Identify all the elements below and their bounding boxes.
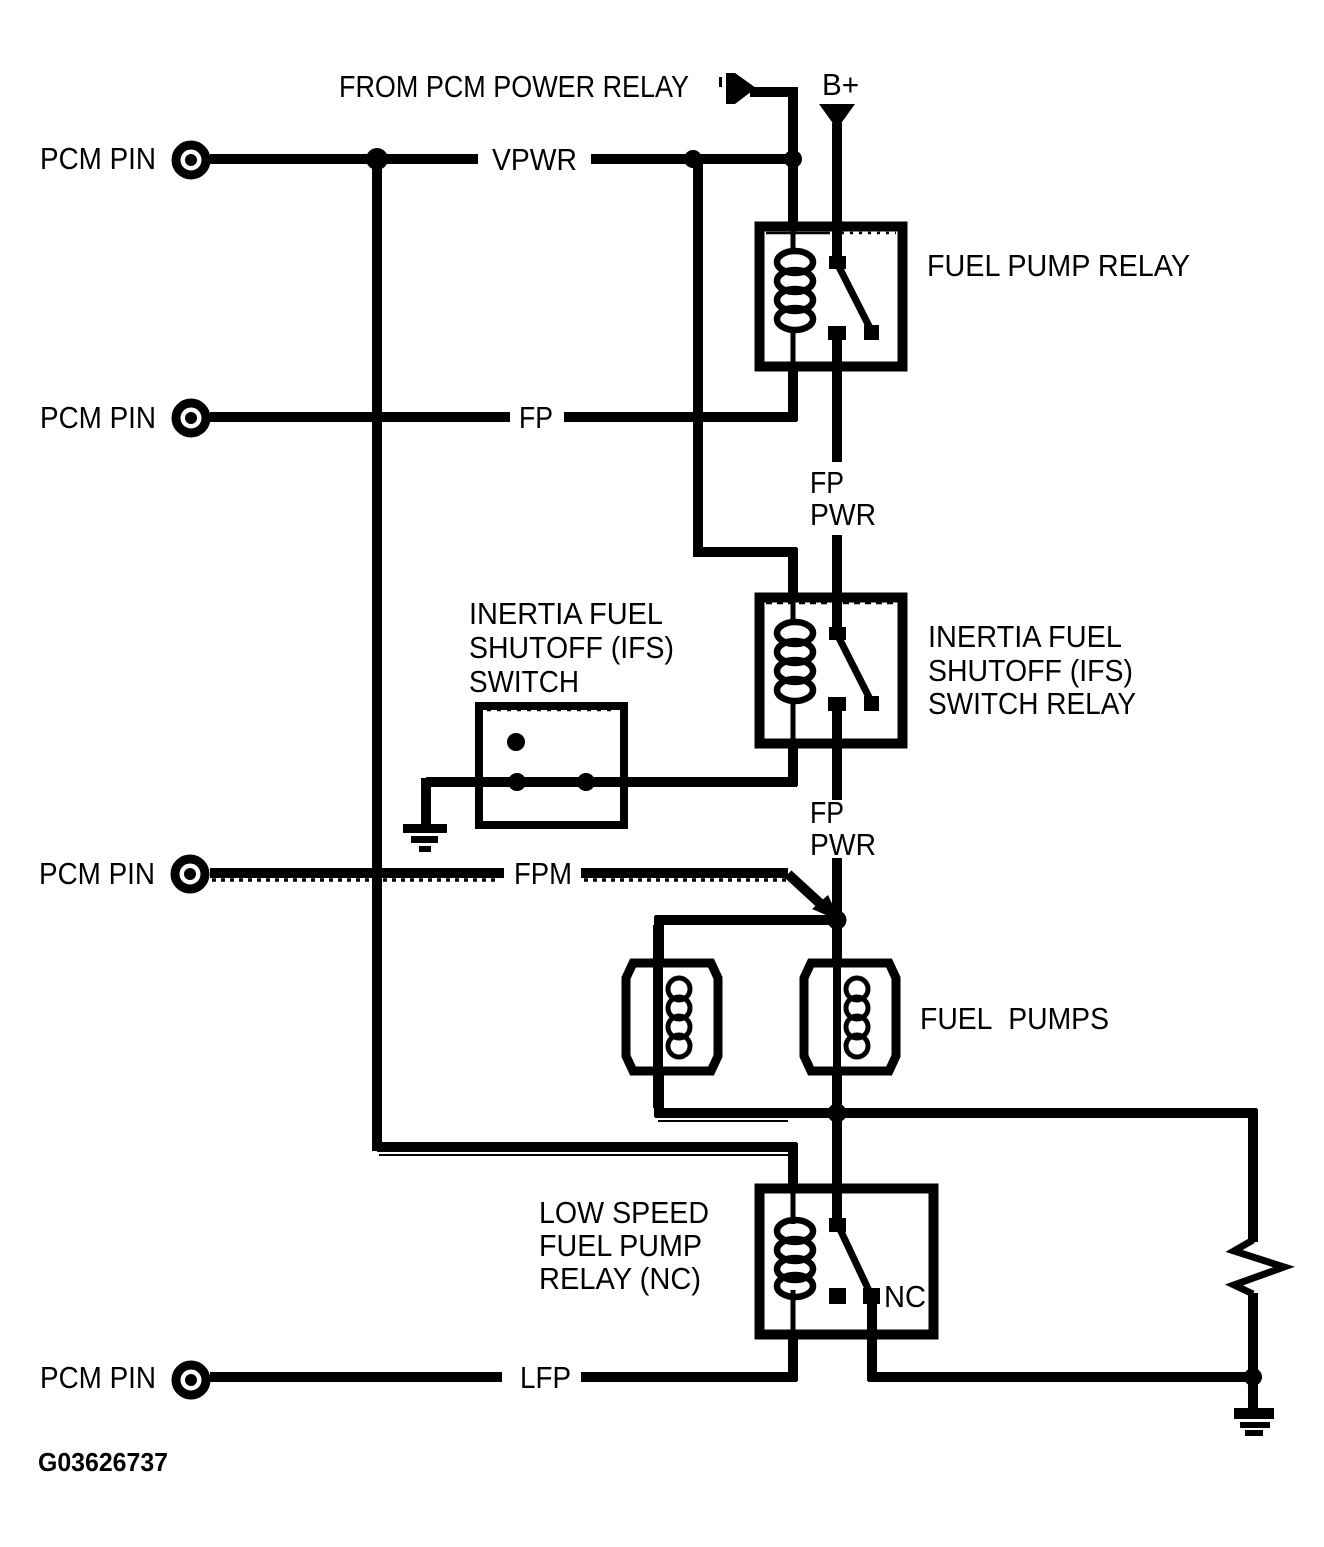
svg-text:RELAY (NC): RELAY (NC) bbox=[539, 1261, 701, 1296]
svg-text:SWITCH: SWITCH bbox=[469, 664, 579, 699]
svg-text:LFP: LFP bbox=[520, 1360, 571, 1395]
svg-text:PWR: PWR bbox=[810, 497, 876, 532]
svg-text:VPWR: VPWR bbox=[492, 142, 577, 177]
svg-text:FPM: FPM bbox=[514, 856, 572, 891]
svg-text:FP: FP bbox=[519, 400, 553, 435]
svg-text:LOW SPEED: LOW SPEED bbox=[539, 1195, 709, 1230]
svg-text:SWITCH RELAY: SWITCH RELAY bbox=[928, 686, 1136, 721]
svg-text:PCM PIN: PCM PIN bbox=[39, 856, 155, 891]
svg-text:B+: B+ bbox=[822, 67, 859, 102]
svg-text:INERTIA FUEL: INERTIA FUEL bbox=[928, 619, 1122, 654]
svg-text:INERTIA FUEL: INERTIA FUEL bbox=[469, 596, 663, 631]
svg-text:PWR: PWR bbox=[810, 827, 876, 862]
svg-text:FUEL PUMP: FUEL PUMP bbox=[539, 1228, 702, 1263]
svg-text:PCM PIN: PCM PIN bbox=[40, 1360, 156, 1395]
svg-text:FUEL PUMP RELAY: FUEL PUMP RELAY bbox=[927, 248, 1190, 283]
svg-text:PCM PIN: PCM PIN bbox=[40, 400, 156, 435]
svg-text:FROM PCM POWER RELAY: FROM PCM POWER RELAY bbox=[339, 69, 689, 104]
svg-text:SHUTOFF (IFS): SHUTOFF (IFS) bbox=[469, 630, 674, 665]
svg-text:SHUTOFF (IFS): SHUTOFF (IFS) bbox=[928, 653, 1133, 688]
svg-text:FP: FP bbox=[810, 795, 844, 830]
svg-text:FP: FP bbox=[810, 465, 844, 500]
svg-text:FUEL PUMPS: FUEL PUMPS bbox=[920, 1001, 1109, 1036]
svg-text:NC: NC bbox=[884, 1279, 926, 1314]
svg-text:PCM PIN: PCM PIN bbox=[40, 141, 156, 176]
svg-text:G03626737: G03626737 bbox=[38, 1447, 168, 1477]
